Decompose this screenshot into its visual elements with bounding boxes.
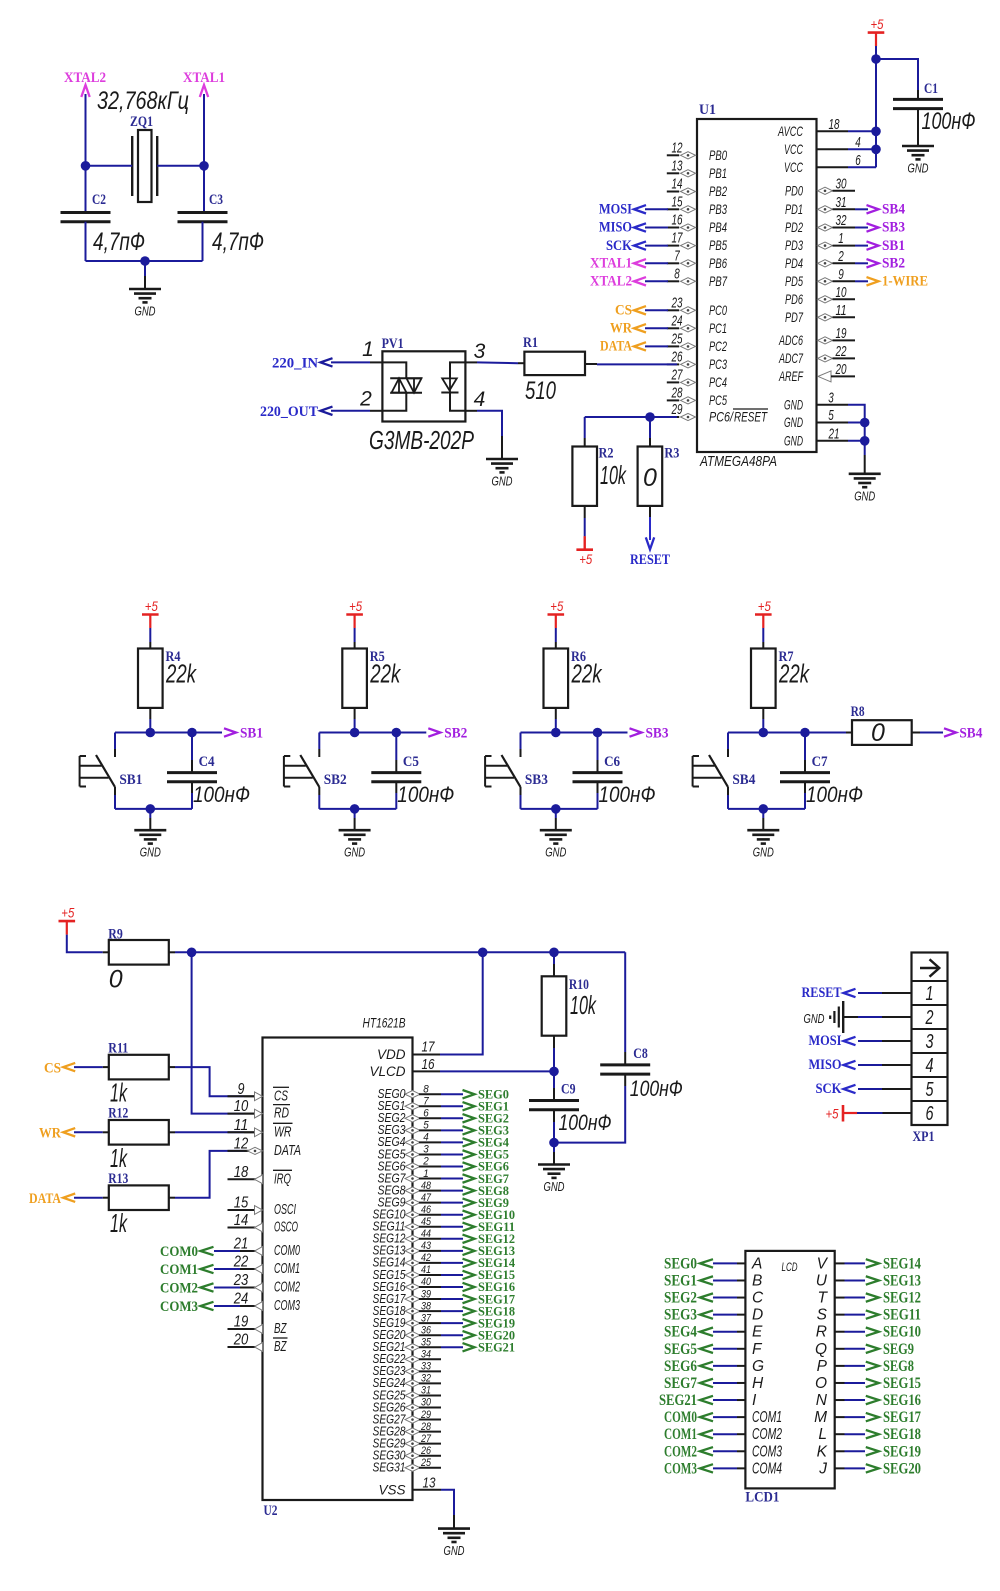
wire C9 bottom [553, 1110, 555, 1122]
svg-text:WR: WR [39, 1126, 61, 1142]
node SEG20 arrow at U2 [463, 1331, 475, 1339]
svg-text:COM3: COM3 [664, 1460, 697, 1477]
svg-text:29: 29 [420, 1409, 431, 1421]
wire SB3 gnd bus [521, 808, 598, 810]
svg-text:4: 4 [926, 1055, 934, 1077]
wire WR to R12 [74, 1131, 103, 1133]
switch SB1 [96, 755, 115, 787]
svg-text:PB7: PB7 [709, 273, 728, 289]
svg-text:P: P [817, 1358, 828, 1375]
wire XP1 pin 4 [858, 1064, 882, 1066]
node COM2 arrow at LCD1 [700, 1447, 713, 1455]
svg-text:22: 22 [233, 1254, 248, 1271]
svg-text:SCK: SCK [606, 238, 632, 254]
svg-text:2: 2 [838, 248, 845, 265]
ic U2 pin 17 VDD [413, 1054, 441, 1056]
resistor R6 [544, 649, 569, 708]
svg-text:MISO: MISO [599, 220, 632, 236]
svg-text:VCC: VCC [784, 141, 804, 157]
ic U1 pin 14 PB2 [667, 191, 679, 193]
svg-text:SEG15: SEG15 [883, 1375, 921, 1392]
wire C1 to ground [917, 109, 919, 146]
ic U2 pin 30 SEG26 [405, 1404, 420, 1411]
wire R8 to SB4 [912, 732, 920, 734]
switch SB2 lead bottom [318, 795, 320, 809]
wire U1 PD4 to SB2 [855, 262, 868, 264]
svg-text:32: 32 [836, 212, 847, 229]
resistor R5 [342, 649, 367, 708]
node SEG9 arrow at LCD1 [866, 1345, 879, 1353]
svg-text:COM3: COM3 [752, 1443, 782, 1460]
resistor R5 lead top [354, 628, 356, 642]
svg-text:43: 43 [421, 1240, 432, 1252]
wire LCD1 L to SEG18 [835, 1433, 845, 1435]
ground C9 [553, 1143, 555, 1152]
node 220_IN arrow [321, 358, 333, 366]
ic U2 pin 42 SEG14 [405, 1259, 420, 1266]
wire U2 SEG17 [441, 1298, 463, 1300]
node CS arrow at R11 [63, 1063, 75, 1071]
svg-text:3: 3 [926, 1031, 934, 1053]
svg-text:PB2: PB2 [709, 183, 727, 199]
svg-text:24: 24 [671, 312, 683, 329]
svg-text:C2: C2 [92, 192, 106, 208]
node COM1 arrow at LCD1 [700, 1430, 713, 1438]
svg-text:PC4: PC4 [709, 374, 727, 390]
wire LCD1 S to SEG11 [835, 1314, 845, 1316]
switch SB4 lead top [727, 733, 729, 750]
wire U2 SEG8 [441, 1190, 463, 1192]
svg-text:23: 23 [671, 294, 683, 311]
svg-text:SB4: SB4 [959, 726, 982, 742]
wire LCD1 N to SEG16 [835, 1399, 845, 1401]
connector XP1 orientation arrow [920, 967, 938, 969]
svg-text:15: 15 [234, 1195, 249, 1212]
node SEG3 arrow at U2 [463, 1126, 475, 1134]
svg-text:H: H [752, 1375, 764, 1392]
node XTAL2 arrow at U1 [634, 277, 646, 285]
switch SB2 [300, 755, 319, 787]
svg-text:SEG17: SEG17 [883, 1409, 921, 1426]
wire XTAL2 vertical [85, 94, 87, 213]
node 220_OUT arrow [321, 407, 333, 415]
svg-text:22k: 22k [778, 659, 810, 689]
node SEG16 arrow at U2 [463, 1283, 475, 1291]
svg-text:31: 31 [836, 194, 847, 211]
ic U1 pin 25 PC2 [667, 345, 679, 347]
wire R13 to U2 DATA [175, 1151, 244, 1198]
node SEG12 arrow at LCD1 [866, 1293, 879, 1301]
svg-text:C4: C4 [199, 754, 215, 770]
svg-text:4,7пФ: 4,7пФ [212, 228, 264, 256]
svg-text:MOSI: MOSI [809, 1033, 842, 1049]
svg-text:7: 7 [423, 1095, 429, 1107]
svg-text:100нФ: 100нФ [559, 1110, 612, 1135]
svg-text:PD3: PD3 [785, 237, 803, 253]
svg-text:100нФ: 100нФ [630, 1076, 683, 1101]
ic U1 pin 16 PB4 [667, 227, 679, 229]
node SEG17 arrow at LCD1 [866, 1413, 879, 1421]
svg-text:5: 5 [828, 407, 834, 424]
svg-text:GND: GND [140, 845, 161, 860]
svg-text:BZ: BZ [274, 1338, 287, 1355]
wire C8 bottom [624, 1074, 626, 1086]
ic U1 pin 17 PB5 [667, 245, 679, 247]
svg-text:LCD1: LCD1 [745, 1490, 779, 1506]
svg-text:100нФ: 100нФ [397, 782, 454, 807]
wire XP1 pin 3 [858, 1040, 882, 1042]
svg-text:OSCO: OSCO [274, 1219, 298, 1236]
relay PV1 body [382, 351, 465, 421]
svg-text:SEG14: SEG14 [883, 1255, 921, 1272]
svg-text:0: 0 [643, 464, 657, 492]
ic U2 pin 29 SEG27 [405, 1416, 420, 1423]
svg-text:COM0: COM0 [274, 1242, 300, 1259]
wire U1 PC0 to CS [645, 309, 668, 311]
node SEG4 arrow at U2 [463, 1138, 475, 1146]
switch SB3 [502, 755, 521, 787]
svg-text:M: M [814, 1409, 827, 1426]
svg-text:PB6: PB6 [709, 255, 727, 271]
svg-text:3: 3 [423, 1144, 429, 1156]
svg-text:GND: GND [544, 1179, 565, 1194]
node SB1 arrow [224, 728, 236, 736]
node SEG7 arrow at U2 [463, 1174, 475, 1182]
svg-text:SEG4: SEG4 [664, 1324, 697, 1341]
svg-text:MISO: MISO [809, 1057, 842, 1073]
svg-text:0: 0 [871, 719, 885, 747]
svg-text:17: 17 [422, 1039, 436, 1056]
ic U2 pin 10 RD [228, 1113, 258, 1115]
crystal ZQ1 [138, 130, 152, 202]
ground SB2 [354, 818, 356, 830]
ground U2 [453, 1515, 455, 1529]
wire SB1 gnd bus [115, 808, 192, 810]
ground SB4 [762, 818, 764, 830]
node SEG2 arrow at U2 [463, 1114, 475, 1122]
svg-text:23: 23 [233, 1272, 248, 1289]
ic U2 pin 13 VSS [413, 1489, 442, 1491]
ic U2 pin 28 SEG28 [405, 1428, 420, 1435]
svg-text:PC0: PC0 [709, 302, 727, 318]
svg-text:SEG13: SEG13 [883, 1272, 921, 1289]
ic U2 pin 24 COM3 [228, 1305, 258, 1307]
svg-text:O: O [815, 1375, 827, 1392]
resistor R13 [109, 1185, 169, 1210]
svg-text:SEG18: SEG18 [883, 1426, 921, 1443]
wire SB3 node [521, 732, 628, 734]
wire U2 SEG1 [441, 1105, 463, 1107]
svg-text:38: 38 [421, 1300, 432, 1312]
node SEG5 arrow at U2 [463, 1150, 475, 1158]
svg-text:3: 3 [828, 389, 834, 406]
capacitor C4 lead top [191, 733, 193, 761]
svg-text:32,768кГц: 32,768кГц [97, 87, 189, 115]
wire U1 PB4 to MISO [645, 227, 668, 229]
svg-text:7: 7 [674, 247, 680, 264]
node MOSI arrow at XP1 [844, 1037, 856, 1045]
wire SB2 node [319, 732, 426, 734]
svg-text:ADC6: ADC6 [778, 332, 803, 348]
ic U1 pin 1 PD3 [818, 242, 833, 249]
ic U1 pin 3 GND [817, 404, 849, 406]
svg-text:46: 46 [421, 1204, 432, 1216]
svg-text:20: 20 [835, 361, 847, 378]
wire R3 to RESET [649, 506, 651, 517]
svg-text:PD0: PD0 [785, 182, 803, 198]
svg-text:GND: GND [784, 396, 803, 412]
svg-text:+5: +5 [871, 16, 884, 32]
svg-text:GND: GND [753, 845, 774, 860]
node SB4 arrow [944, 728, 956, 736]
node SEG4 arrow at LCD1 [700, 1328, 713, 1336]
ic U2 pin 34 SEG22 [405, 1356, 420, 1363]
svg-text:E: E [752, 1324, 763, 1341]
node SCK arrow at XP1 [844, 1085, 856, 1093]
svg-text:S: S [817, 1307, 828, 1324]
svg-text:19: 19 [836, 325, 847, 342]
ic U2 pin 2 SEG6 [405, 1163, 420, 1170]
svg-text:DATA: DATA [274, 1142, 301, 1159]
node WR arrow at U1 [634, 324, 646, 332]
capacitor C7 lead bottom [804, 782, 806, 793]
wire XP1 pin 5 [858, 1088, 882, 1090]
svg-text:26: 26 [420, 1445, 432, 1457]
svg-text:1-WIRE: 1-WIRE [882, 274, 928, 290]
ic U2 pin 45 SEG11 [405, 1223, 420, 1230]
svg-text:SB3: SB3 [646, 726, 669, 742]
ic U2 pin 22 COM1 [228, 1268, 258, 1270]
wire CS to R11 [74, 1066, 103, 1068]
node SEG21 arrow at LCD1 [700, 1396, 713, 1404]
ic U2 pin 21 COM0 [228, 1250, 258, 1252]
svg-text:2: 2 [925, 1007, 934, 1029]
svg-text:COM1: COM1 [274, 1260, 300, 1277]
node SEG19 arrow at U2 [463, 1319, 475, 1327]
wire U2 SEG7 [441, 1178, 463, 1180]
wire U1 PB7 to XTAL2 [645, 280, 668, 282]
ic U2 pin 36 SEG20 [405, 1332, 420, 1339]
svg-text:22k: 22k [571, 659, 603, 689]
svg-text:37: 37 [421, 1312, 432, 1324]
capacitor C9 [553, 1071, 555, 1088]
svg-text:28: 28 [420, 1421, 432, 1433]
svg-text:CS: CS [274, 1087, 288, 1104]
node SEG11 arrow at U2 [463, 1223, 475, 1231]
svg-text:6: 6 [423, 1108, 429, 1120]
wire C3 bottom [202, 222, 204, 261]
svg-text:SEG3: SEG3 [664, 1307, 697, 1324]
svg-text:10k: 10k [600, 460, 627, 490]
svg-text:42: 42 [421, 1252, 431, 1264]
wire U1 PB6 to XTAL1 [645, 262, 668, 264]
wire R1 to U1 PC3 [585, 363, 597, 365]
wire SB4 gnd bus [728, 808, 805, 810]
node SEG6 arrow at U2 [463, 1162, 475, 1170]
svg-text:2: 2 [422, 1156, 428, 1168]
ic U1 pin 6 VCC [817, 166, 849, 168]
wire R9 to U2 RD [192, 952, 244, 1113]
wire LCD1 U to SEG13 [835, 1279, 845, 1281]
capacitor C7 [780, 771, 830, 774]
ic U1 pin 7 PB6 [667, 262, 679, 264]
svg-text:SEG31: SEG31 [373, 1461, 406, 1475]
svg-text:SB3: SB3 [525, 772, 548, 788]
svg-text:PD4: PD4 [785, 255, 803, 271]
svg-text:220_OUT: 220_OUT [260, 404, 318, 420]
svg-text:COM2: COM2 [160, 1281, 198, 1297]
svg-text:COM3: COM3 [160, 1299, 198, 1315]
svg-text:U1: U1 [699, 102, 716, 118]
ic U2 pin 27 SEG29 [405, 1440, 420, 1447]
svg-text:SEG6: SEG6 [664, 1358, 697, 1375]
svg-text:SB1: SB1 [882, 238, 905, 254]
wire LCD1 J to SEG20 [835, 1467, 845, 1469]
svg-text:SEG7: SEG7 [664, 1375, 697, 1392]
svg-text:PD5: PD5 [785, 273, 803, 289]
ic U1 pin 31 PD1 [818, 206, 833, 213]
svg-text:G: G [752, 1358, 764, 1375]
svg-text:SEG0: SEG0 [664, 1255, 697, 1272]
ic U1 pin 28 PC5 [667, 399, 679, 401]
svg-text:SB2: SB2 [882, 256, 905, 272]
svg-text:PB4: PB4 [709, 219, 727, 235]
svg-text:COM2: COM2 [274, 1279, 300, 1296]
svg-text:47: 47 [421, 1192, 432, 1204]
wire +5 to U1 VCC [875, 46, 877, 167]
ic U2 pin 47 SEG9 [405, 1199, 420, 1206]
svg-text:U2: U2 [264, 1503, 278, 1519]
capacitor C6 lead top [597, 733, 599, 761]
connector LCD1 body [745, 1251, 834, 1489]
resistor R2 [584, 438, 586, 447]
ic U2 pin 48 SEG8 [405, 1187, 420, 1194]
svg-text:ADC7: ADC7 [778, 350, 803, 366]
svg-text:GND: GND [545, 845, 566, 860]
wire U2 SEG0 [441, 1093, 463, 1095]
svg-text:A: A [751, 1255, 762, 1272]
ic U1 pin 27 PC4 [667, 381, 679, 383]
node WR arrow at R12 [63, 1128, 75, 1136]
capacitor C6 [573, 771, 623, 774]
wire U1 PD5 to 1-WIRE [855, 280, 868, 282]
ic U1 ATMEGA48PA body [697, 119, 817, 452]
svg-text:PD7: PD7 [785, 309, 804, 325]
svg-text:1k: 1k [110, 1078, 128, 1108]
ic U2 pin 33 SEG23 [405, 1368, 420, 1375]
svg-text:1k: 1k [110, 1143, 128, 1173]
node SEG13 arrow at LCD1 [866, 1276, 879, 1284]
wire U2 SEG12 [441, 1238, 463, 1240]
svg-text:+5: +5 [550, 598, 563, 614]
wire LCD1 COM4 to COM3 [737, 1467, 745, 1469]
ic U1 pin 30 PD0 [818, 187, 833, 194]
svg-text:C3: C3 [209, 192, 223, 208]
svg-text:100нФ: 100нФ [193, 782, 250, 807]
svg-text:K: K [817, 1443, 828, 1460]
svg-text:11: 11 [836, 302, 847, 319]
resistor R10 [553, 952, 555, 964]
node SEG1 arrow at U2 [463, 1102, 475, 1110]
node SEG10 arrow at U2 [463, 1211, 475, 1219]
ic U2 pin 11 WR [228, 1131, 258, 1133]
ic U2 pin 20 BZ [228, 1346, 258, 1348]
svg-text:PB3: PB3 [709, 201, 727, 217]
wire U2 SEG18 [441, 1310, 463, 1312]
svg-text:19: 19 [234, 1314, 249, 1331]
ic U1 pin 24 PC1 [667, 327, 679, 329]
node COM0 arrow at LCD1 [700, 1413, 713, 1421]
svg-text:48: 48 [421, 1180, 432, 1192]
svg-text:PD6: PD6 [785, 291, 803, 307]
node MOSI arrow at U1 [634, 205, 646, 213]
wire +5 to R9 [67, 935, 103, 953]
svg-text:R8: R8 [851, 704, 865, 720]
svg-text:L: L [818, 1426, 827, 1443]
ground SB1 [149, 818, 151, 830]
svg-text:16: 16 [422, 1056, 436, 1073]
svg-text:GND: GND [492, 474, 513, 489]
svg-text:9: 9 [238, 1081, 245, 1098]
wire R12 to U2 WR [175, 1131, 244, 1133]
node SB2 arrow [428, 728, 440, 736]
svg-text:20: 20 [233, 1332, 248, 1349]
svg-text:COM4: COM4 [752, 1460, 782, 1477]
svg-text:+5: +5 [758, 598, 771, 614]
svg-text:22k: 22k [370, 659, 402, 689]
svg-text:HT1621B: HT1621B [363, 1015, 406, 1031]
node SEG12 arrow at U2 [463, 1235, 475, 1243]
ic U1 pin 21 GND [817, 440, 849, 442]
svg-text:30: 30 [836, 175, 847, 192]
wire LCD1 Q to SEG9 [835, 1348, 845, 1350]
svg-text:SEG9: SEG9 [883, 1341, 914, 1358]
ic U1 pin 19 ADC6 [818, 337, 833, 344]
wire LCD1 O to SEG15 [835, 1382, 845, 1384]
ic U2 pin 38 SEG18 [405, 1308, 420, 1315]
svg-text:34: 34 [421, 1349, 431, 1361]
resistor R4 lead bottom [149, 708, 151, 719]
svg-text:+5: +5 [145, 598, 158, 614]
svg-text:220_IN: 220_IN [272, 356, 318, 372]
svg-text:V: V [817, 1255, 829, 1272]
svg-text:PB5: PB5 [709, 237, 727, 253]
node SEG0 arrow at U2 [463, 1090, 475, 1098]
node COM2 arrow at U2 [214, 1287, 240, 1289]
svg-text:SEG5: SEG5 [664, 1341, 697, 1358]
relay PV1 triac [382, 362, 406, 378]
svg-text:10: 10 [234, 1098, 249, 1115]
wire R11 to U2 CS [175, 1067, 244, 1096]
svg-text:XP1: XP1 [913, 1129, 935, 1145]
svg-text:GND: GND [444, 1543, 465, 1558]
svg-text:SEG8: SEG8 [883, 1358, 914, 1375]
svg-text:18: 18 [234, 1164, 249, 1181]
svg-text:510: 510 [525, 377, 556, 405]
svg-text:5: 5 [423, 1120, 429, 1132]
node COM1 arrow at U2 [214, 1268, 240, 1270]
svg-text:GND: GND [908, 161, 929, 176]
svg-text:10k: 10k [570, 990, 597, 1020]
svg-text:22: 22 [835, 343, 847, 360]
svg-text:F: F [752, 1341, 763, 1358]
capacitor C4 [167, 771, 217, 774]
svg-text:T: T [818, 1290, 829, 1307]
svg-text:+5: +5 [61, 905, 74, 921]
svg-text:5: 5 [926, 1079, 935, 1101]
wire U2 SEG9 [441, 1202, 463, 1204]
svg-text:SB2: SB2 [324, 772, 347, 788]
